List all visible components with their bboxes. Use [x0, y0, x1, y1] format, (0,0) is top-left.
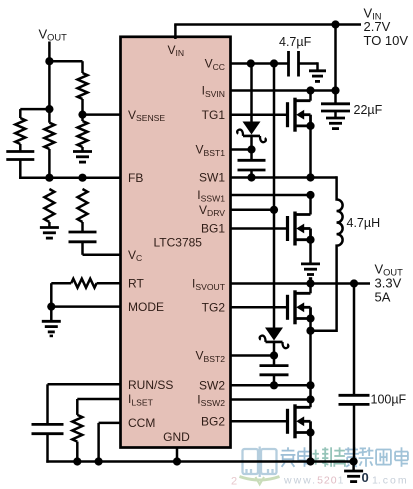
diode D1 schottky — [237, 122, 266, 143]
node VOUT mid junction — [45, 105, 53, 113]
wire D2 cathode to VBST2 node — [273, 341, 276, 366]
wire ISVOUT row — [231, 282, 371, 285]
wire Q2 drain up — [309, 195, 312, 215]
wire VBST2 row — [231, 354, 275, 357]
wire D1 cathode to VBST1 node — [250, 135, 253, 161]
svg-text:2.7V: 2.7V — [364, 19, 391, 34]
node VSENSE — [78, 111, 86, 119]
svg-text:GND: GND — [163, 430, 190, 444]
wire Q2 source to ground — [309, 240, 312, 264]
ground MODE — [42, 321, 61, 336]
capacitor C7 100uF — [339, 395, 370, 404]
wire to left RC branch — [20, 109, 49, 118]
wire VOUT down — [48, 42, 51, 110]
svg-text:RUN/SS: RUN/SS — [128, 378, 173, 392]
node ISSW2-Q4 drain — [306, 395, 314, 403]
wire C6 to VC pin — [83, 242, 121, 255]
wire MODE row — [51, 305, 120, 308]
wire Q3 source down to SW2 and Q4 — [309, 319, 312, 408]
U1 labels VIN LTC3785 GND — [154, 43, 203, 444]
capacitor C6 comp — [69, 232, 97, 242]
svg-text:4.7µH: 4.7µH — [347, 216, 381, 230]
wire VIN rail down to ISVIN row — [334, 25, 337, 91]
svg-text:TG1: TG1 — [202, 108, 226, 122]
U1 right pin labels — [192, 57, 226, 429]
wire BG1 row — [231, 227, 288, 230]
label 4.7uF — [279, 35, 312, 49]
wire TG1 row — [231, 113, 288, 116]
ground 22uF — [326, 118, 345, 129]
wire bus to ground symbol — [352, 462, 355, 472]
wire R5 to ground — [48, 222, 51, 228]
svg-text:SW1: SW1 — [199, 171, 225, 185]
capacitor C4 feedforward — [6, 152, 34, 160]
label VIN 2.7V TO 10V — [364, 6, 409, 49]
svg-text:TG2: TG2 — [202, 301, 226, 315]
wire Q3 drain up — [309, 284, 312, 294]
ground FB divider — [40, 228, 59, 239]
svg-text:RT: RT — [128, 276, 144, 290]
node GND pin bus — [173, 457, 181, 465]
svg-text:100µF: 100µF — [371, 393, 407, 407]
wire R4 to FB row — [48, 149, 51, 178]
resistor R2 top — [78, 73, 88, 99]
inductor L1 4.7uH — [311, 176, 343, 330]
node VOUT-output cap — [350, 279, 358, 287]
node FB-R4 — [45, 174, 53, 182]
svg-text:TO 10V: TO 10V — [364, 33, 409, 48]
label 22uF — [354, 103, 383, 117]
resistor R3 vsense lower — [78, 121, 88, 147]
svg-text:3.3V: 3.3V — [375, 276, 402, 291]
wire C2 to ground — [334, 111, 337, 118]
wire Q4 source to bus — [309, 433, 312, 462]
node MODE junction — [47, 303, 55, 311]
svg-text:SW2: SW2 — [199, 379, 225, 393]
U1 left pin labels — [128, 108, 173, 430]
node ISVOUT-Q3 drain — [306, 279, 314, 287]
resistor R6 comp — [78, 189, 88, 222]
wire VIN pin to top rail — [174, 25, 361, 40]
node SW2-boost cap2 — [270, 381, 278, 389]
watermark www.520101.com — [231, 447, 409, 488]
op-amp U1 LTC3785 controller body — [121, 37, 231, 448]
ground VCC cap — [309, 71, 326, 82]
wire VDRV row — [231, 209, 275, 212]
wire MODE to ground — [50, 307, 53, 322]
svg-text:5A: 5A — [375, 290, 391, 305]
node SW1-boost cap — [247, 173, 255, 181]
capacitor C8 soft-start — [32, 424, 64, 433]
wire RUN/SS row — [48, 384, 121, 424]
resistor R4 fb top — [44, 123, 54, 149]
node ILSET bus — [73, 457, 81, 465]
node VCC-VDRV column — [270, 59, 278, 67]
wire C1 to ground — [299, 62, 318, 71]
node SW1-Q1 source column — [306, 173, 314, 181]
wire R8 to bus — [76, 442, 79, 462]
node VOUT top junction — [45, 57, 53, 65]
transistor Q4 — [288, 404, 315, 438]
wire C3 to SW1 — [250, 170, 253, 178]
svg-text:22µF: 22µF — [354, 103, 383, 117]
wire R1 to C4 — [19, 144, 22, 152]
wire FB column R4 — [48, 109, 51, 123]
svg-text:4.7µF: 4.7µF — [279, 35, 312, 49]
wire R6 to C6 — [81, 222, 84, 232]
svg-text:www.5201: www.5201 — [283, 475, 345, 487]
svg-text:FB: FB — [128, 171, 143, 185]
diode D2 schottky — [260, 328, 289, 349]
node Q4 source bus — [306, 457, 314, 465]
transistor Q2 — [288, 212, 315, 246]
label 4.7uH — [347, 216, 381, 230]
wire Q1 source down to SW1 — [309, 126, 312, 178]
wire TG2 row — [231, 306, 288, 309]
wire ILSET row — [77, 399, 120, 415]
wire GND pin down — [176, 448, 179, 462]
wire ISSW2 row — [231, 398, 311, 401]
label 100uF — [371, 393, 407, 407]
svg-text:CCM: CCM — [128, 416, 155, 430]
resistor R8 ILSET — [72, 415, 82, 442]
wire R2 to VSENSE node — [81, 99, 84, 121]
wire C4 to FB row — [19, 160, 22, 179]
label VOUT 3.3V 5A — [375, 262, 404, 305]
node ISSW1-Q2 drain — [306, 191, 314, 199]
resistor R5 fb bottom — [44, 189, 54, 222]
svg-text:BG1: BG1 — [201, 222, 225, 236]
wire VCC to D1 anode — [250, 64, 253, 122]
ground VSENSE divider — [73, 152, 92, 163]
node VCC-diode1 column — [247, 59, 255, 67]
label VOUT left — [39, 27, 68, 43]
wire VSENSE row — [83, 113, 121, 116]
wire ground bus — [46, 460, 353, 463]
svg-text:LTC3785: LTC3785 — [154, 236, 203, 250]
capacitor C5 boost2 — [260, 366, 289, 375]
svg-text:2: 2 — [231, 476, 237, 488]
node output cap bus — [350, 457, 358, 465]
wire VBST1 row — [231, 148, 252, 151]
transistor Q1 — [288, 98, 315, 132]
resistor R7 RT — [71, 279, 96, 288]
node VBST1 — [247, 145, 255, 153]
wire BG2 row — [231, 420, 288, 423]
node ISVIN-VIN rail — [331, 86, 339, 94]
wire ISVIN row — [231, 89, 336, 92]
ground Q2 source — [301, 264, 320, 279]
wire C7 to bus — [353, 404, 356, 461]
wire VCC row — [231, 62, 289, 65]
capacitor C1 4.7uF — [289, 51, 299, 77]
wire SW2 row — [231, 384, 311, 387]
wire C8 to bus — [46, 434, 49, 463]
capacitor C2 22uF — [321, 104, 350, 111]
capacitor C3 boost1 — [238, 160, 266, 170]
node L1 bottom to SW2 column — [306, 327, 314, 335]
wire VCC column B down — [273, 64, 276, 328]
wire Q1 drain up — [309, 91, 312, 101]
wire CCM row — [99, 423, 121, 462]
ground main — [344, 471, 363, 482]
node VDRV-VCC column — [270, 206, 278, 214]
transistor Q3 — [288, 290, 315, 324]
svg-text:MODE: MODE — [128, 300, 164, 314]
svg-text:1.com: 1.com — [372, 475, 409, 487]
wire R3 to ground — [81, 147, 84, 152]
resistor R1 feedforward — [15, 118, 25, 144]
node VBST2 — [270, 351, 278, 359]
node VIN junction — [331, 20, 339, 28]
node ISVIN-Q1 drain — [306, 86, 314, 94]
wire VOUT to R2 column — [49, 61, 82, 73]
node CCM bus — [95, 457, 103, 465]
wire VOUT column down — [353, 284, 356, 396]
wire RT lead right — [97, 282, 121, 285]
node SW2 column — [306, 381, 314, 389]
wire FB row — [19, 176, 120, 179]
wire C5 to SW2 — [273, 375, 276, 386]
node FB-R5 — [78, 174, 86, 182]
wire ISSW1 row — [231, 194, 311, 197]
wire RT lead left down — [51, 283, 71, 306]
wire VIN node to C2 — [334, 91, 337, 104]
svg-text:BG2: BG2 — [201, 415, 225, 429]
wire SW1 row — [231, 176, 337, 179]
